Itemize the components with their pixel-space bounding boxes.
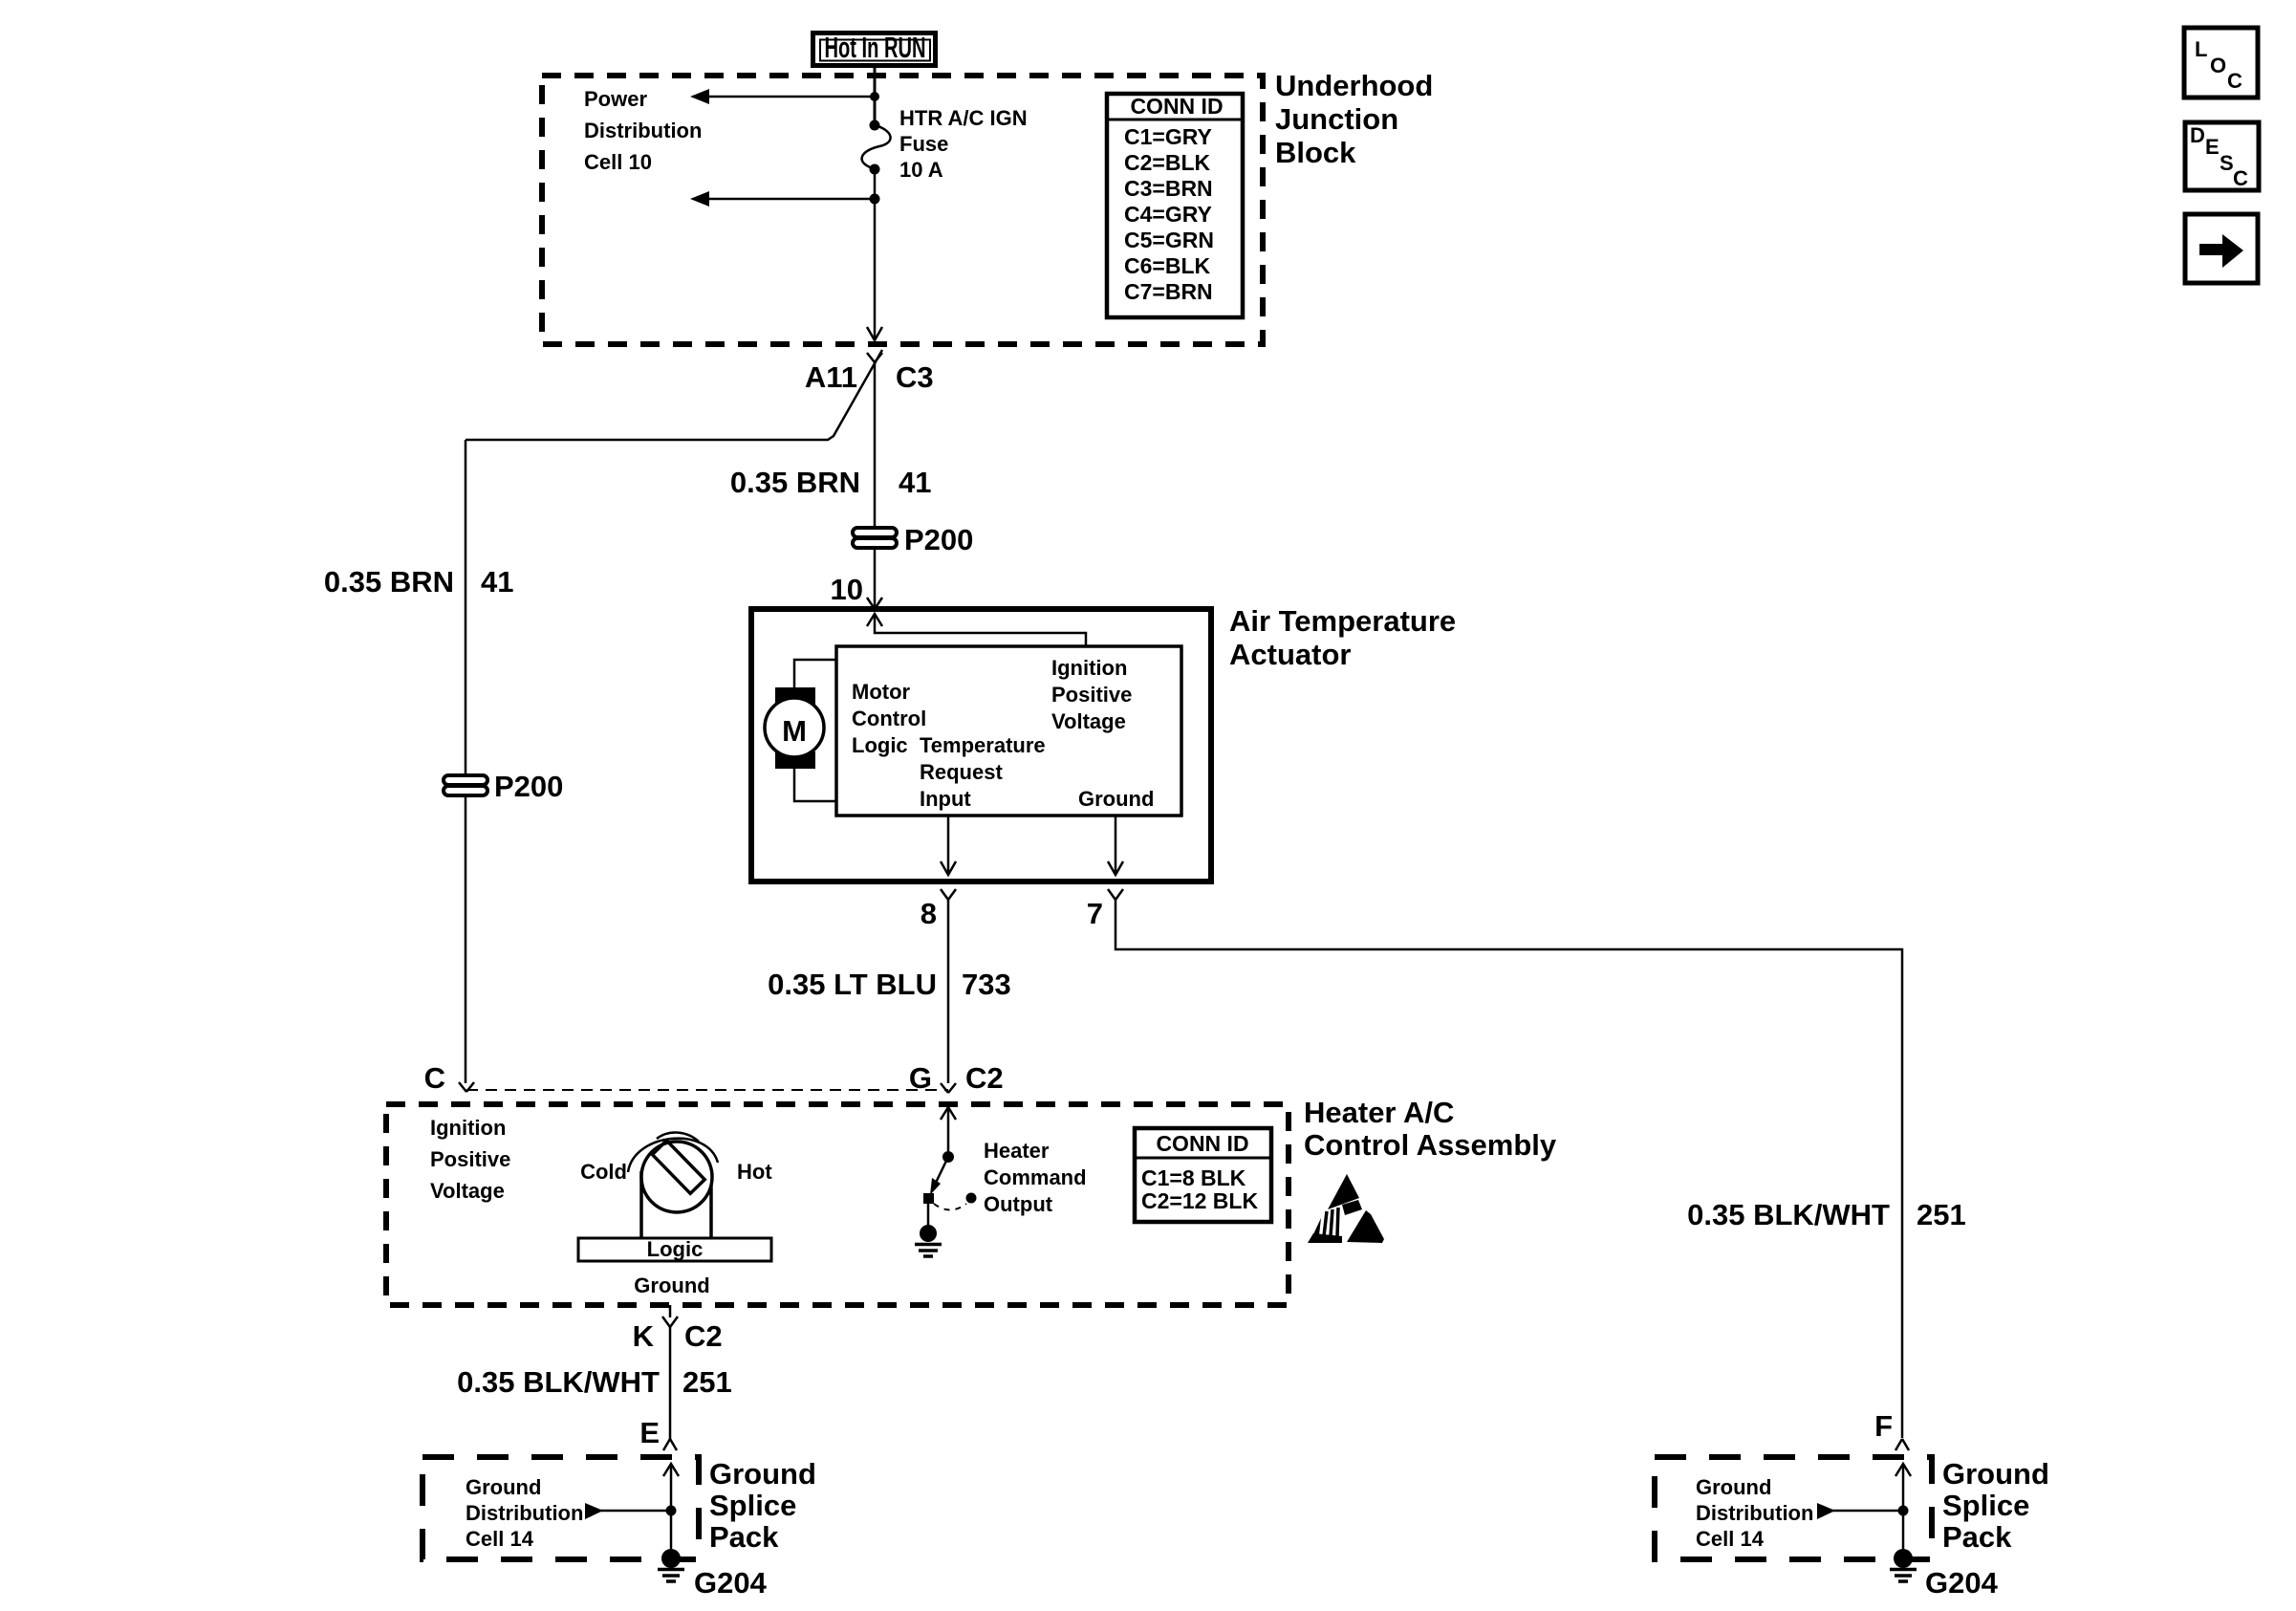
svg-text:C2: C2	[965, 1061, 1004, 1095]
CONN ID table (underhood)	[1107, 94, 1243, 317]
svg-text:C3: C3	[896, 360, 934, 394]
connector fork E	[663, 1439, 677, 1450]
grommet P200 (middle)	[853, 528, 897, 548]
svg-text:D: D	[2190, 123, 2205, 147]
connector fork F	[1895, 1439, 1909, 1450]
temperature knob	[628, 1133, 718, 1239]
svg-text:0.35 BRN: 0.35 BRN	[324, 565, 454, 599]
wire: connector A11 down (0.35 BRN 41 middle)	[874, 362, 877, 528]
output wire pin 8 (temperature request)	[941, 816, 956, 875]
Underhood Junction Block dashed box	[542, 76, 1263, 344]
svg-text:P200: P200	[494, 770, 563, 803]
svg-text:P200: P200	[904, 523, 973, 556]
power feed box Hot In RUN	[813, 31, 936, 66]
heater command wire with up arrow	[941, 1107, 956, 1157]
switch alternate position (dashed)	[934, 1193, 977, 1210]
wire: pin 8 to connector G (0.35 LT BLU 733)	[947, 900, 950, 1083]
wire: heater ground to connector K	[669, 1305, 672, 1317]
svg-text:Ground: Ground	[634, 1274, 709, 1297]
svg-text:7: 7	[1087, 897, 1103, 930]
svg-text:O: O	[2210, 54, 2226, 77]
svg-text:0.35 BRN: 0.35 BRN	[730, 466, 860, 499]
svg-text:41: 41	[899, 466, 931, 499]
svg-text:CONN ID: CONN ID	[1130, 94, 1223, 119]
svg-text:Hot: Hot	[737, 1160, 772, 1184]
svg-text:C: C	[2233, 166, 2248, 190]
fuse HTR A/C IGN 10 A	[862, 120, 891, 175]
left Ground Splice Pack dashed box	[422, 1457, 699, 1559]
svg-text:C1=8 BLKC2=12 BLK: C1=8 BLKC2=12 BLK	[1141, 1165, 1258, 1213]
switch lower contact	[923, 1193, 934, 1204]
wire: pin 7 right and down to connector F	[1116, 900, 1902, 1438]
ground G204 (left)	[658, 1549, 684, 1581]
internal dashed wire C to G	[466, 1089, 948, 1091]
junction node (switch pivot)	[942, 1151, 954, 1163]
Heater A/C Control Assembly dashed box	[386, 1104, 1289, 1305]
svg-text:Logic: Logic	[647, 1237, 704, 1261]
svg-text:K: K	[633, 1319, 655, 1353]
svg-text:M: M	[782, 714, 807, 748]
svg-text:Ground: Ground	[1078, 787, 1154, 811]
svg-text:IgnitionPositiveVoltage: IgnitionPositiveVoltage	[430, 1116, 510, 1203]
right Ground Splice Pack dashed box	[1655, 1457, 1932, 1559]
grommet P200 (left)	[444, 775, 487, 795]
svg-text:Hot In RUN: Hot In RUN	[825, 31, 926, 64]
junction node (right splice)	[1898, 1506, 1909, 1516]
svg-text:C2: C2	[684, 1319, 723, 1353]
svg-text:E: E	[2205, 135, 2220, 159]
connector fork pin 8	[941, 889, 956, 900]
svg-text:0.35 BLK/WHT: 0.35 BLK/WHT	[457, 1365, 660, 1399]
ESD sensitive device symbol	[1308, 1174, 1384, 1243]
svg-text:G204: G204	[694, 1566, 768, 1600]
DESC reference box	[2185, 122, 2259, 190]
ground G204 (right)	[1890, 1549, 1917, 1581]
svg-text:8: 8	[921, 897, 937, 930]
internal wire: logic box to ignition feed with up arrow	[867, 614, 1086, 647]
left drop wire (0.35 BRN 41)	[465, 440, 467, 775]
wire: K to E (0.35 BLK/WHT 251)	[669, 1327, 672, 1439]
svg-text:733: 733	[962, 968, 1011, 1001]
junction node	[870, 194, 880, 205]
switch ground symbol	[915, 1204, 942, 1256]
junction node (left splice)	[666, 1506, 677, 1516]
connector fork pin 10	[867, 598, 882, 609]
junction node	[870, 92, 879, 101]
splice wire with up arrow (left)	[663, 1464, 679, 1550]
CONN ID table (heater)	[1135, 1128, 1271, 1222]
svg-text:F: F	[1874, 1409, 1893, 1443]
output wire pin 7 (ground)	[1108, 816, 1123, 875]
svg-text:C1=GRYC2=BLKC3=BRNC4=GRYC5=GRN: C1=GRYC2=BLKC3=BRNC4=GRYC5=GRNC6=BLKC7=B…	[1124, 124, 1214, 304]
connector A11/C3 fork	[867, 353, 882, 362]
svg-text:C: C	[2227, 69, 2242, 93]
Air Temperature Actuator box	[751, 609, 1211, 882]
connector fork K	[662, 1317, 678, 1327]
svg-text:G204: G204	[1925, 1566, 1999, 1600]
wire: fuse to connector A11 with down arrow	[867, 169, 882, 340]
svg-text:0.35 LT BLU: 0.35 LT BLU	[768, 968, 937, 1001]
svg-text:251: 251	[682, 1365, 732, 1399]
svg-text:CONN ID: CONN ID	[1156, 1131, 1248, 1156]
connector fork C	[459, 1082, 474, 1092]
svg-text:A11: A11	[805, 360, 857, 394]
distribution arrow (right)	[1817, 1503, 1903, 1519]
left wire: P200 down to connector C	[465, 796, 467, 1083]
wire: Hot In RUN to fuse	[874, 66, 877, 125]
motor wires to logic box	[794, 660, 836, 801]
wire arrow to Power Distribution (lower)	[690, 191, 875, 207]
svg-text:L: L	[2195, 37, 2207, 61]
connector fork G	[941, 1083, 956, 1093]
splice wire with up arrow (right)	[1895, 1464, 1911, 1550]
svg-text:S: S	[2220, 151, 2234, 175]
connector fork pin 7	[1108, 889, 1123, 900]
svg-text:41: 41	[481, 565, 513, 599]
svg-text:IgnitionPositiveVoltage: IgnitionPositiveVoltage	[1051, 656, 1132, 733]
svg-text:10: 10	[831, 573, 863, 606]
svg-text:251: 251	[1917, 1198, 1966, 1231]
motor M	[765, 687, 824, 769]
LOC reference box	[2184, 28, 2258, 98]
svg-text:Cold: Cold	[580, 1160, 627, 1184]
svg-text:0.35 BLK/WHT: 0.35 BLK/WHT	[1687, 1198, 1890, 1231]
distribution arrow (left)	[585, 1503, 671, 1519]
actuator logic inner box	[836, 646, 1181, 816]
branch wire: A11 diagonal to left drop	[466, 350, 882, 440]
switch arm with arrowhead	[930, 1157, 948, 1195]
knob logic box	[578, 1237, 771, 1261]
wire: P200 to actuator pin 10	[874, 549, 877, 608]
wire arrow to Power Distribution (upper)	[690, 89, 875, 104]
svg-text:E: E	[639, 1416, 660, 1449]
svg-text:C: C	[424, 1061, 445, 1095]
forward arrow reference box	[2185, 214, 2258, 283]
